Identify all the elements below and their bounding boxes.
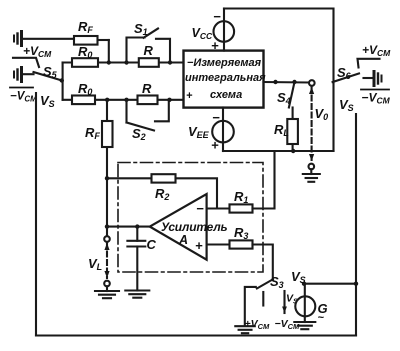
svg-text:S3: S3 [270,274,284,290]
switch S5 blade [34,72,62,81]
node output b [292,80,296,84]
source VEE [212,108,234,152]
label +VCM (top-left) [23,44,52,59]
svg-text:−VCM: −VCM [10,91,37,104]
resistor R2 [152,174,176,182]
dash-dot enclosure around auxiliary amplifier [118,163,263,273]
svg-text:R: R [142,81,152,96]
svg-text:+: + [195,238,203,253]
S5 upper throw contact [13,58,39,67]
ground under C [125,291,149,298]
svg-text:S1: S1 [134,21,148,37]
wire S5 pole to input rows [62,63,64,100]
svg-text:~: ~ [318,312,325,324]
S3 +Vcm throw to ground [245,287,256,326]
svg-text:+: + [186,90,193,102]
svg-text:RF: RF [78,19,93,35]
svg-text:VL: VL [88,256,102,272]
svg-text:R0: R0 [78,44,92,60]
svg-text:интегральная: интегральная [185,72,266,84]
svg-text:+: + [211,138,219,153]
svg-text:−Измеряемая: −Измеряемая [187,57,262,69]
svg-text:R2: R2 [155,186,169,202]
svg-text:−VCM: −VCM [362,91,391,106]
S6 +Vcm throw contact [358,59,380,68]
source +Vcm terminal (chassis bars) top-left [14,32,22,46]
svg-text:+VCM: +VCM [245,318,271,331]
wire R1 to supply rail [253,151,275,209]
wire R2 row [107,177,152,179]
wire inverting input to R1 [207,207,230,209]
svg-text:Усилитель: Усилитель [161,220,228,234]
svg-text:+: + [211,38,219,53]
svg-text:VCC: VCC [192,26,213,41]
wire input row 2 [63,99,184,101]
svg-text:VS: VS [339,97,354,113]
node row2 a [105,98,109,102]
generator G (VS source) [295,284,315,322]
VS polarity arrow [282,291,287,313]
svg-text:R0: R0 [78,81,92,97]
node right border [354,282,358,286]
ground under VL [95,286,119,298]
wire -Vcm to S5 blade [22,73,34,75]
S3 -Vcm throw contact [262,292,264,306]
svg-text:схема: схема [210,89,242,101]
resistor R0 row2 [72,96,95,105]
capacitor C [127,227,145,291]
svg-text:−: − [196,201,204,216]
ground under V0 [303,169,320,182]
svg-text:S6: S6 [337,65,352,81]
resistor RF (top) [74,36,109,63]
node output/C [135,224,139,228]
node row2 b [124,98,128,102]
svg-text:−VCM: −VCM [275,318,301,331]
resistor R0 row1 [72,58,98,67]
svg-text:V0: V0 [315,106,329,122]
op-amp U1 (auxiliary amplifier, points left) [150,194,207,260]
svg-text:R3: R3 [234,225,248,241]
node S5 pole [60,78,64,82]
resistor RL [287,108,298,152]
wire supply common rail (VEE+ to right) [223,150,334,152]
ground under G [294,322,315,329]
switch S2 (shorts R row2) [127,100,169,131]
svg-text:S4: S4 [277,90,291,106]
wire +Vcm to RF top [22,38,74,40]
switch S1 (shorts R row1) [127,29,171,63]
resistor RF (vertical) [102,121,113,147]
DUT box: measured integrated circuit [184,51,264,108]
node RF/R2 [105,176,109,180]
svg-text:S5: S5 [43,64,58,80]
wire bottom rail [36,334,356,336]
wire R3 to S3 [253,245,273,280]
node row1 b [124,60,128,64]
svg-text:C: C [147,237,157,252]
switch S4 blade [289,82,295,108]
label VS (left) [40,93,55,109]
node RL bottom [291,149,295,153]
svg-text:R1: R1 [234,189,248,205]
switch S6 blade [333,74,359,83]
switch S3 blade [257,279,273,288]
node row1 c [168,60,172,64]
wire row2 node down through RF vertical to amplifier column [106,100,108,227]
wire input row 1 [63,61,184,63]
node row1 a [107,60,111,64]
svg-text:RF: RF [85,125,100,141]
wire VS node to right border [304,283,356,285]
source terminal chassis bars (right, S6) [364,72,382,86]
svg-text:−: − [212,110,220,125]
ground under S3 +Vcm [235,326,255,333]
svg-text:+VCM: +VCM [362,43,391,58]
svg-text:VEE: VEE [188,124,210,140]
resistor R row2 [138,96,158,105]
label -VCM overlined [10,88,37,104]
source -Vcm terminal (chassis bars) [14,68,22,82]
V0 measurement arrow (dashed) [309,80,315,169]
node output a [273,80,277,84]
wire left border / VS line [35,93,37,336]
svg-text:VS: VS [40,93,55,109]
resistor R1 [230,204,253,212]
svg-text:R: R [144,43,154,58]
wire noninverting input to R3 [207,243,230,245]
label -VCM (right) overlined [361,90,391,106]
node VS / generator top [302,282,306,286]
svg-text:VS: VS [291,269,306,285]
node output/VL [105,224,109,228]
node row2 c [167,98,171,102]
resistor R3 [230,240,253,248]
wire amplifier output [107,226,150,228]
label VS (right) [339,97,354,113]
source VCC [214,9,235,51]
resistor R row1 [139,58,159,67]
wire top rail to S6 pole [224,9,334,152]
svg-text:−: − [213,9,221,24]
VL measurement arrow (dashed) [104,227,110,287]
wire DUT output [264,81,310,84]
svg-text:A: A [178,233,188,247]
wire right border [355,114,357,336]
